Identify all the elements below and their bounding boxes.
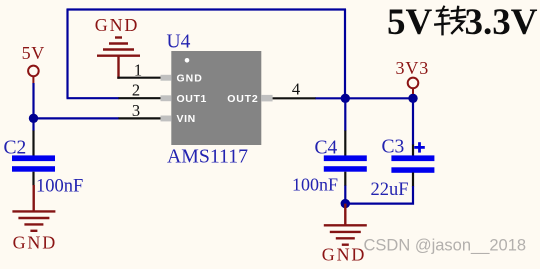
capacitor C2 pin black lower <box>32 172 34 186</box>
svg-text:U4: U4 <box>167 32 191 53</box>
svg-text:3: 3 <box>132 101 140 120</box>
svg-text:C4: C4 <box>315 138 338 159</box>
junction 3V3 node <box>408 94 417 103</box>
wire output node down to C4 <box>344 98 346 131</box>
wire input node down to C2 <box>32 118 34 131</box>
svg-text:5V: 5V <box>387 2 433 43</box>
wire C3 down and left to ground node <box>345 186 413 204</box>
svg-text:GND: GND <box>13 233 57 253</box>
ground bottom right <box>322 225 367 264</box>
capacitor C3 polarity plus <box>414 142 425 152</box>
pin stub 1 <box>161 75 172 81</box>
pin stub 3 <box>161 116 172 122</box>
capacitor C3 plates <box>391 155 434 161</box>
capacitor C2 pin black upper <box>32 131 34 157</box>
capacitor C2 plates <box>12 155 55 161</box>
regulator U4 pin1 dot <box>185 58 190 63</box>
wire C2 to ground (red stem) <box>33 185 35 211</box>
capacitor C3 pin black upper <box>412 145 414 157</box>
wire OUT1 horizontal blue segment <box>67 97 120 99</box>
capacitor C4 pin black upper <box>344 131 346 157</box>
svg-text:4: 4 <box>292 80 300 99</box>
schematic title 5V to 3.3V <box>387 2 538 43</box>
pin 3 VIN wire black <box>119 117 162 119</box>
junction ground node C4/C3 <box>341 199 350 208</box>
pin 4 wire blue segment <box>316 97 346 99</box>
regulator U4 body <box>171 51 261 145</box>
svg-text:VIN: VIN <box>177 113 196 125</box>
svg-text:GND: GND <box>322 245 366 265</box>
junction input node <box>29 114 38 123</box>
svg-text:2: 2 <box>132 80 140 99</box>
svg-text:C3: C3 <box>382 137 405 158</box>
svg-text:22uF: 22uF <box>371 180 409 200</box>
svg-text:CSDN @jason__2018: CSDN @jason__2018 <box>364 237 527 255</box>
svg-text:AMS1117: AMS1117 <box>167 146 248 168</box>
capacitor C4 pin black lower <box>344 172 346 186</box>
ground GND top near U4 (flipped power ground) <box>95 15 140 79</box>
wire input node to VIN <box>34 117 120 119</box>
svg-text:3.3V: 3.3V <box>465 2 538 43</box>
pin stub 4 <box>261 95 272 102</box>
capacitor C3 pin black lower <box>412 173 414 187</box>
svg-text:GND: GND <box>95 15 139 35</box>
svg-text:3V3: 3V3 <box>395 58 429 78</box>
pin 4 OUT2 wire black <box>273 97 317 99</box>
ground bottom left <box>12 211 57 252</box>
svg-text:OUT1: OUT1 <box>177 93 207 105</box>
junction output node <box>341 94 350 103</box>
svg-text:C2: C2 <box>4 138 27 159</box>
wire C4 to ground node <box>344 186 346 204</box>
capacitor C4 plates <box>324 155 367 161</box>
pin stub 2 <box>161 95 172 101</box>
wire right vertical from top bus down to output node <box>344 9 346 98</box>
svg-text:100nF: 100nF <box>292 175 338 195</box>
svg-text:1: 1 <box>134 61 142 80</box>
wire left vertical from top bus down to OUT1 row <box>66 9 68 98</box>
svg-text:5V: 5V <box>22 43 45 63</box>
wire top bus OUT1 to output node <box>67 8 347 10</box>
wire 3V3 node down to C3 <box>412 98 414 145</box>
pin 2 OUT1 wire black <box>119 97 162 99</box>
svg-text:100nF: 100nF <box>36 177 83 197</box>
power port 3V3 <box>395 58 429 94</box>
svg-text:OUT2: OUT2 <box>227 93 258 105</box>
power port 5V <box>22 43 45 84</box>
wire 5V terminal down to input node <box>32 83 34 118</box>
hanzi zhuan (drawn) <box>435 7 465 35</box>
wire ground node to ground symbol (red stem) <box>344 204 346 226</box>
pin 1 GND wire black <box>117 77 161 79</box>
wire output node to 3V3 terminal node <box>345 97 413 99</box>
svg-text:GND: GND <box>177 72 203 84</box>
